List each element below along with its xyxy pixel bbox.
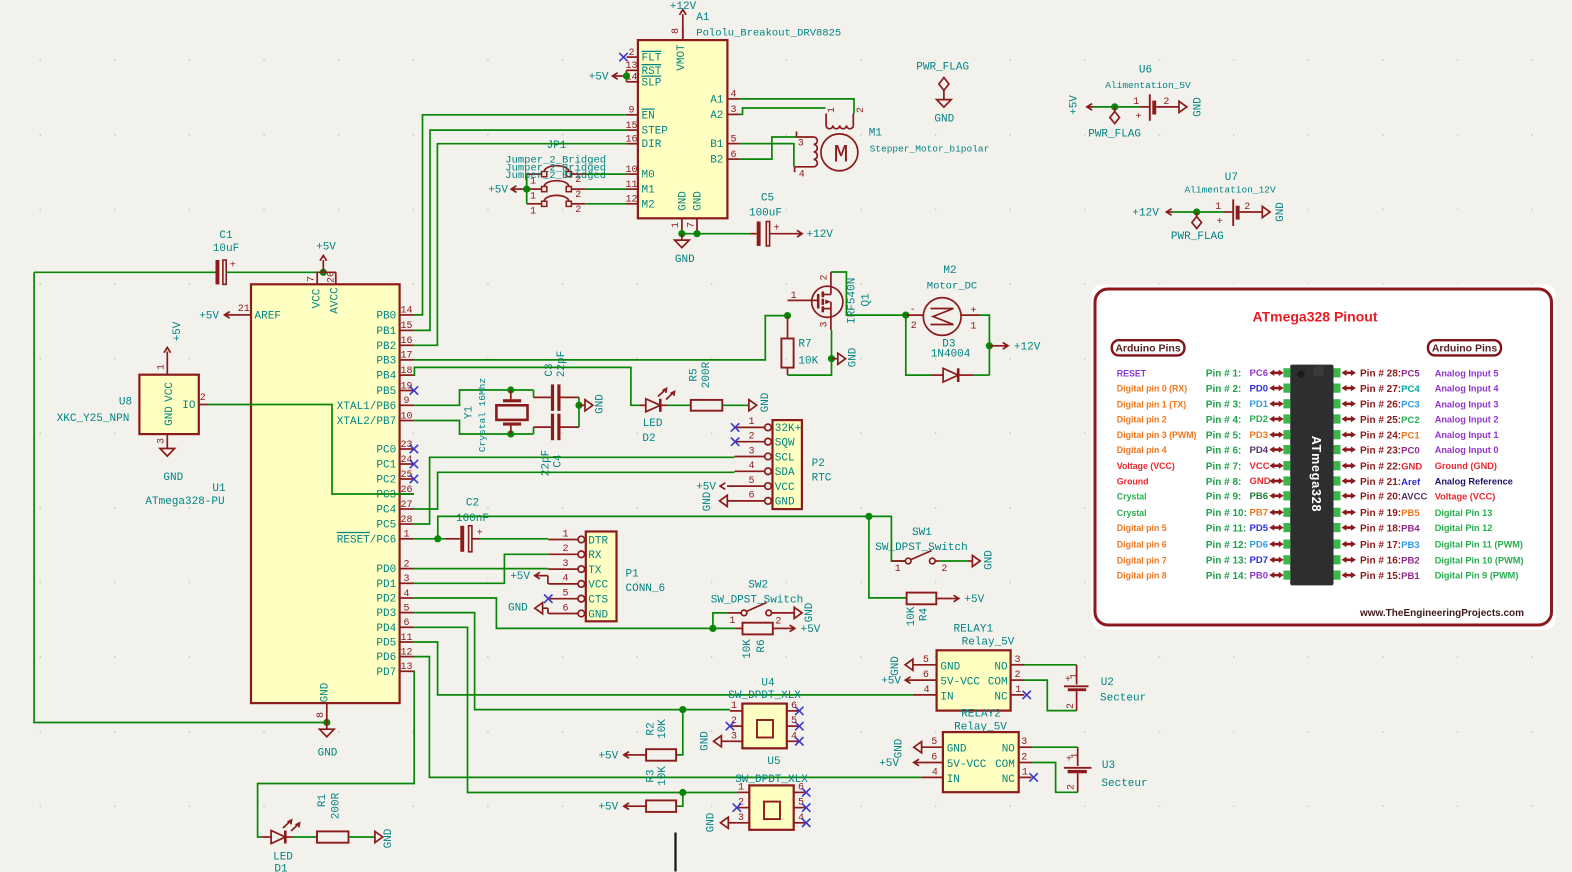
wire +12V to U7 battery (1172, 208, 1223, 215)
wire PD5 to RELAY1 IN (414, 642, 913, 695)
svg-text:PD7: PD7 (1250, 555, 1268, 566)
svg-text:Pin # 13:: Pin # 13: (1206, 556, 1247, 567)
ground symbol right of SW1 (968, 550, 996, 570)
svg-text:R3: R3 (645, 769, 657, 782)
svg-text:SW_DPST_Switch: SW_DPST_Switch (875, 542, 967, 554)
svg-text:100uF: 100uF (749, 207, 782, 219)
svg-text:LED: LED (643, 418, 663, 430)
switch SW2 SW_DPST_Switch (727, 603, 794, 628)
svg-text:PB6: PB6 (1250, 491, 1268, 502)
svg-text:32K+: 32K+ (775, 423, 801, 435)
connector P1 CONN_6 body (548, 529, 616, 621)
svg-text:PB1: PB1 (376, 326, 396, 338)
wire R5 to ground (722, 404, 749, 406)
IC U1 reference and value labels (145, 483, 226, 508)
wire PC4 to P2 SDA (414, 472, 735, 509)
svg-text:VCC: VCC (588, 580, 608, 592)
pinout right pin numbers and names (1360, 369, 1427, 582)
svg-text:www.TheEngineeringProjects.com: www.TheEngineeringProjects.com (1359, 608, 1524, 619)
svg-text:10K: 10K (742, 639, 754, 659)
svg-text:5V-VCC: 5V-VCC (940, 677, 980, 689)
IC U1 right pin stubs and numbers (400, 306, 414, 673)
svg-text:17: 17 (400, 351, 412, 362)
svg-text:Pin # 8:: Pin # 8: (1206, 477, 1242, 488)
svg-text:Pololu_Breakout_DRV8825: Pololu_Breakout_DRV8825 (696, 27, 841, 39)
svg-text:3: 3 (403, 574, 409, 585)
power symbol +5V at P1 VCC (510, 571, 548, 584)
wire RESET net to C2 (414, 535, 446, 542)
svg-text:13: 13 (400, 662, 412, 673)
diode D3 labels (931, 339, 971, 361)
svg-text:PB4: PB4 (376, 371, 396, 383)
svg-text:R5: R5 (689, 368, 701, 381)
svg-text:Analog Reference: Analog Reference (1435, 477, 1513, 487)
svg-text:+5V: +5V (881, 676, 901, 688)
power symbol +5V right of R6 (773, 624, 821, 636)
svg-text:R6: R6 (756, 639, 768, 652)
power symbol +5V at U6 (1069, 95, 1094, 115)
svg-text:4: 4 (932, 767, 938, 778)
svg-text:Analog Input 5: Analog Input 5 (1435, 368, 1499, 378)
svg-text:DIR: DIR (642, 139, 662, 151)
svg-text:XTAL1/PB6: XTAL1/PB6 (337, 401, 396, 413)
power symbol +5V left of R3 (598, 802, 637, 814)
pinout left descriptor column (1117, 368, 1197, 580)
svg-text:1: 1 (1022, 767, 1028, 778)
svg-text:Pin # 10:: Pin # 10: (1206, 508, 1247, 519)
svg-text:SW_DPST_Switch: SW_DPST_Switch (711, 595, 803, 607)
svg-text:+: + (970, 306, 976, 317)
svg-text:1: 1 (1070, 673, 1081, 679)
power symbol +5V right of R4 (936, 594, 984, 606)
svg-text:Pin # 22:GND: Pin # 22:GND (1360, 462, 1422, 473)
ground symbol right of U7 (1262, 202, 1287, 222)
svg-text:Stepper_Motor_bipolar: Stepper_Motor_bipolar (870, 144, 990, 155)
svg-text:10uF: 10uF (213, 243, 239, 255)
svg-text:4: 4 (562, 574, 568, 585)
svg-text:5: 5 (798, 798, 804, 809)
svg-text:22pF: 22pF (556, 351, 568, 377)
svg-text:Digital Pin 10 (PWM): Digital Pin 10 (PWM) (1435, 555, 1524, 565)
svg-text:Analog Input 0: Analog Input 0 (1435, 445, 1499, 455)
svg-text:Voltage (VCC): Voltage (VCC) (1117, 461, 1175, 471)
wire C2 to P1 DTR (472, 538, 548, 540)
svg-text:1: 1 (791, 291, 797, 302)
svg-text:2: 2 (775, 617, 781, 628)
svg-text:VCC: VCC (775, 482, 795, 494)
IC A1 left pin stubs with numbers (625, 48, 637, 206)
svg-text:200R: 200R (331, 792, 343, 819)
pinout footer url (1359, 608, 1524, 619)
svg-text:RX: RX (588, 550, 602, 562)
svg-text:Pin # 18:PB4: Pin # 18:PB4 (1360, 523, 1420, 534)
svg-text:2: 2 (575, 190, 581, 201)
svg-text:PC6: PC6 (1250, 368, 1268, 379)
svg-text:A1: A1 (710, 94, 724, 106)
svg-text:PD0: PD0 (376, 564, 396, 576)
svg-text:GND: GND (940, 661, 960, 673)
svg-text:RTC: RTC (812, 472, 832, 484)
svg-text:JP1: JP1 (547, 140, 567, 152)
svg-text:2: 2 (731, 716, 737, 727)
svg-text:3: 3 (798, 138, 804, 149)
svg-text:GND: GND (804, 602, 816, 622)
IC A1 pin 8 VMOT stub (671, 28, 683, 40)
wire M2 to jumper 3 (585, 203, 626, 205)
svg-text:GND: GND (702, 491, 714, 511)
svg-text:U3: U3 (1102, 760, 1115, 772)
svg-text:2: 2 (738, 798, 744, 809)
transistor Q1 IRF540N (788, 272, 843, 330)
svg-text:6: 6 (923, 670, 929, 681)
pinout double arrows (1269, 370, 1356, 579)
svg-text:GND: GND (678, 191, 690, 211)
svg-text:1: 1 (156, 364, 167, 370)
svg-text:ATmega328: ATmega328 (1309, 436, 1323, 512)
svg-text:R4: R4 (919, 608, 931, 622)
power symbol +5V at P2 VCC (696, 482, 725, 494)
svg-text:Relay_5V: Relay_5V (954, 722, 1007, 734)
wire PD2 to SW2 and R6 (414, 598, 736, 632)
wire RESET net to SW1 and R4 (438, 513, 907, 598)
crystal Y1 labels (464, 378, 489, 452)
svg-text:GND: GND (847, 347, 859, 367)
svg-text:Pin # 2:: Pin # 2: (1206, 384, 1242, 395)
svg-text:Digital pin 5: Digital pin 5 (1117, 523, 1167, 533)
svg-text:PD3: PD3 (1250, 430, 1268, 441)
svg-text:A1: A1 (696, 12, 710, 24)
svg-text:Digital Pin 9 (PWM): Digital Pin 9 (PWM) (1435, 571, 1519, 581)
switch U4 labels (728, 678, 801, 703)
wire SW1 to ground (940, 560, 968, 562)
svg-text:5: 5 (730, 134, 736, 145)
wire PD6 to RELAY2 IN (414, 657, 922, 778)
svg-text:10K: 10K (657, 766, 669, 786)
connector P2 labels (812, 458, 832, 484)
svg-text:GND: GND (163, 472, 183, 484)
svg-text:SDA: SDA (775, 467, 795, 479)
svg-text:100nF: 100nF (456, 513, 489, 525)
svg-text:16: 16 (625, 135, 637, 146)
svg-text:2: 2 (941, 564, 947, 575)
svg-text:5V-VCC: 5V-VCC (947, 759, 987, 771)
svg-text:GND: GND (894, 738, 906, 758)
svg-text:PWR_FLAG: PWR_FLAG (916, 61, 969, 73)
svg-text:Pin # 21:Aref: Pin # 21:Aref (1360, 477, 1421, 488)
wire LED D2 to R5 (667, 404, 691, 406)
svg-text:5: 5 (923, 655, 929, 666)
svg-text:4: 4 (924, 685, 930, 696)
svg-text:Arduino Pins: Arduino Pins (1432, 343, 1497, 355)
crystal Y1 16Mhz (496, 390, 527, 434)
svg-text:PWR_FLAG: PWR_FLAG (1171, 231, 1224, 243)
wire EN to PB0 (414, 115, 627, 315)
svg-text:4: 4 (798, 813, 804, 824)
svg-text:1: 1 (562, 529, 568, 540)
svg-text:+: + (1217, 217, 1223, 228)
no-connect X on U4 pins (726, 707, 804, 746)
svg-text:6: 6 (403, 618, 409, 629)
wire B2 to stepper coil B terminal 3 (739, 137, 796, 159)
wire ground rail to C1 (34, 271, 215, 273)
svg-text:Alimentation_12V: Alimentation_12V (1184, 185, 1276, 196)
svg-text:Pin # 26:PC3: Pin # 26:PC3 (1360, 400, 1420, 411)
svg-text:SQW: SQW (775, 438, 795, 450)
svg-text:RELAY1: RELAY1 (953, 623, 993, 635)
svg-text:RESET: RESET (1117, 368, 1147, 378)
svg-text:PD2: PD2 (376, 594, 396, 606)
svg-text:XKC_Y25_NPN: XKC_Y25_NPN (57, 413, 130, 425)
wire A1 to stepper coil A (739, 99, 854, 114)
ground symbol right of C3 C4 (579, 394, 607, 414)
svg-text:ATmega328 Pinout: ATmega328 Pinout (1253, 309, 1378, 325)
LED D1 (262, 820, 300, 844)
svg-text:12: 12 (625, 195, 637, 206)
svg-text:11: 11 (400, 633, 412, 644)
power symbol +5V at RELAY1 pin 6 (881, 676, 913, 688)
svg-text:IRF540N: IRF540N (847, 278, 859, 324)
svg-text:Crystal 16Mhz: Crystal 16Mhz (477, 378, 488, 452)
wire PC5 to P2 SCL (414, 457, 735, 524)
pinout badge Arduino Pins left (1112, 340, 1185, 355)
svg-text:PD4: PD4 (376, 623, 396, 635)
svg-text:10K: 10K (798, 356, 818, 368)
svg-text:PD5: PD5 (376, 638, 396, 650)
ground symbol right of U6 (1179, 97, 1205, 117)
wire DIR to PB2 (414, 144, 627, 346)
svg-text:3: 3 (738, 813, 744, 824)
svg-text:C1: C1 (219, 230, 233, 242)
svg-text:PD1: PD1 (376, 579, 396, 591)
svg-text:1N4004: 1N4004 (931, 349, 971, 361)
svg-text:RELAY2: RELAY2 (961, 709, 1001, 721)
wire D3 cathode to M2 plus and +12V (974, 315, 993, 375)
stray black line at bottom (674, 833, 676, 872)
svg-text:27: 27 (400, 500, 412, 511)
no-connect X on RELAY2 NC (1029, 773, 1037, 781)
svg-text:C2: C2 (466, 497, 479, 509)
svg-text:7: 7 (307, 276, 318, 282)
svg-text:Pin # 12:: Pin # 12: (1206, 540, 1247, 551)
pinout left chip pin names (1250, 368, 1271, 581)
svg-text:1: 1 (895, 564, 901, 575)
svg-text:ATmega328-PU: ATmega328-PU (145, 496, 224, 508)
svg-text:CONN_6: CONN_6 (626, 583, 666, 595)
svg-text:SW2: SW2 (748, 580, 768, 592)
ground symbol at P2 GND (702, 491, 727, 511)
pinout panel background (1092, 285, 1556, 630)
svg-text:3: 3 (730, 105, 736, 116)
svg-text:1: 1 (671, 222, 682, 228)
svg-text:U2: U2 (1101, 677, 1114, 689)
svg-text:A2: A2 (710, 110, 723, 122)
sensor U8 labels (57, 396, 132, 425)
svg-text:VCC: VCC (1250, 461, 1270, 472)
svg-text:CTS: CTS (588, 595, 608, 607)
svg-text:2: 2 (1066, 703, 1077, 709)
svg-text:+12V: +12V (670, 1, 697, 13)
svg-text:SW_DPDT_XLX: SW_DPDT_XLX (728, 690, 801, 702)
svg-text:1: 1 (403, 530, 409, 541)
svg-text:GND: GND (984, 550, 996, 570)
svg-text:PD3: PD3 (376, 608, 396, 620)
svg-text:10K: 10K (906, 606, 918, 626)
resistor R6 10K (736, 623, 773, 659)
svg-text:PC2: PC2 (376, 475, 396, 487)
svg-text:4: 4 (730, 90, 736, 101)
svg-text:Analog Input 1: Analog Input 1 (1435, 430, 1499, 440)
svg-text:PD1: PD1 (1250, 399, 1269, 410)
ground symbol below DRV8825 (675, 234, 695, 266)
wire jumper common rail (523, 174, 530, 204)
svg-text:+5V: +5V (1069, 95, 1081, 115)
capacitor C2 100nF (446, 497, 489, 552)
svg-text:3: 3 (820, 321, 831, 327)
svg-text:Pin # 3:: Pin # 3: (1206, 400, 1242, 411)
svg-text:NC: NC (994, 691, 1008, 703)
ground symbol right of SW2 (794, 602, 816, 622)
svg-text:6: 6 (730, 150, 736, 161)
svg-text:15: 15 (625, 121, 637, 132)
wire R1 to ground (349, 836, 375, 838)
svg-text:4: 4 (791, 731, 797, 742)
IC U1 ATmega328-PU body (251, 284, 400, 703)
svg-text:SLP: SLP (642, 77, 662, 89)
svg-text:GND: GND (775, 497, 795, 509)
svg-text:+: + (230, 261, 236, 272)
ground symbol at RELAY2 pin 5 (894, 738, 922, 758)
svg-text:+5V: +5V (172, 321, 184, 341)
svg-text:1: 1 (729, 616, 735, 627)
wire PB3 to Q1 gate node (414, 312, 791, 360)
IC A1 right pin stubs with numbers (727, 90, 739, 161)
power symbol +5V above U1 VCC (316, 242, 336, 273)
svg-text:FLT: FLT (642, 53, 662, 65)
svg-text:B2: B2 (710, 155, 723, 167)
svg-text:Analog Input 2: Analog Input 2 (1435, 415, 1499, 425)
svg-text:PD5: PD5 (1250, 523, 1269, 534)
capacitor C4 22pF (534, 414, 580, 441)
svg-text:8: 8 (671, 28, 682, 34)
svg-text:COM: COM (988, 677, 1008, 689)
svg-text:Pin # 17:PB3: Pin # 17:PB3 (1360, 540, 1420, 551)
svg-text:PWR_FLAG: PWR_FLAG (1088, 128, 1141, 140)
svg-text:PD6: PD6 (1250, 539, 1268, 550)
svg-text:Q1: Q1 (861, 293, 873, 307)
svg-text:+5V: +5V (316, 242, 336, 254)
svg-text:PB2: PB2 (376, 341, 396, 353)
svg-text:2: 2 (856, 107, 867, 113)
motor M1 Stepper_Motor_bipolar (795, 107, 867, 180)
svg-text:Ground: Ground (1117, 477, 1149, 487)
svg-text:Digital pin 1 (TX): Digital pin 1 (TX) (1117, 399, 1186, 409)
svg-text:VCC: VCC (164, 382, 176, 402)
power symbol +5V at jumpers (488, 185, 527, 197)
svg-text:Digital pin 7: Digital pin 7 (1117, 555, 1167, 565)
svg-text:GND: GND (595, 394, 607, 414)
svg-text:GND: GND (706, 812, 718, 832)
svg-text:Digital pin 4: Digital pin 4 (1117, 445, 1167, 455)
svg-text:1: 1 (1215, 202, 1221, 213)
svg-text:2: 2 (200, 393, 206, 404)
svg-text:B1: B1 (710, 139, 724, 151)
svg-text:Pin # 5:: Pin # 5: (1206, 431, 1242, 442)
no-connect X on P2 pins 1 2 (731, 423, 739, 446)
svg-text:6: 6 (791, 701, 797, 712)
svg-text:21: 21 (238, 304, 250, 315)
svg-text:XTAL2/PB7: XTAL2/PB7 (337, 416, 396, 428)
svg-text:2: 2 (1067, 784, 1078, 790)
svg-text:5: 5 (562, 589, 568, 600)
IC U1 right pin names (337, 310, 397, 678)
IC U1 bottom pin name GND (320, 682, 332, 702)
motor M2 Motor_DC (906, 298, 980, 336)
wire STEP to PB1 (414, 130, 627, 330)
svg-text:2: 2 (628, 48, 634, 59)
no-connect X on FLT pin 2 (619, 53, 627, 61)
battery U7 Alimentation_12V (1215, 199, 1262, 228)
LED D2 (640, 389, 675, 412)
svg-text:+5V: +5V (488, 185, 508, 197)
svg-text:6: 6 (931, 753, 937, 764)
svg-text:3: 3 (1021, 737, 1027, 748)
svg-text:9: 9 (628, 106, 634, 117)
no-connect X on U5 pins (733, 788, 811, 827)
svg-text:GND: GND (934, 114, 954, 126)
LED D1 labels (273, 852, 293, 872)
svg-text:GND: GND (508, 603, 528, 615)
ground symbol at U4 pin 3 (700, 731, 730, 751)
capacitor C5 100uF (749, 193, 782, 246)
svg-text:PD6: PD6 (376, 652, 396, 664)
svg-text:1: 1 (731, 701, 737, 712)
svg-text:M2: M2 (943, 265, 956, 277)
IC U1 AREF pin 21 (237, 304, 281, 322)
svg-text:5: 5 (931, 737, 937, 748)
svg-text:Arduino Pins: Arduino Pins (1115, 343, 1180, 355)
svg-text:R2: R2 (645, 722, 657, 735)
svg-text:-: - (910, 305, 916, 316)
svg-text:9: 9 (403, 396, 409, 407)
pinout panel title ATmega328 Pinout (1253, 309, 1378, 325)
svg-text:1: 1 (1071, 752, 1082, 758)
wire RELAY1 COM to U2 (1024, 680, 1076, 711)
wire RELAY2 COM to U3 (1032, 763, 1078, 793)
svg-text:+5V: +5V (598, 802, 618, 814)
svg-text:GND: GND (320, 682, 332, 702)
svg-text:PB5: PB5 (376, 386, 396, 398)
svg-text:C3: C3 (544, 363, 556, 376)
svg-text:TX: TX (588, 565, 602, 577)
svg-text:Pin # 23:PC0: Pin # 23:PC0 (1360, 445, 1420, 456)
power flag PWR_FLAG at U7 (1171, 212, 1224, 243)
capacitor C1 10uF (213, 230, 239, 285)
wire R7 to Q1 source ground node (788, 330, 836, 375)
svg-text:Digital Pin 12: Digital Pin 12 (1435, 523, 1493, 533)
svg-text:18: 18 (400, 366, 412, 377)
svg-text:C4: C4 (553, 454, 565, 468)
svg-text:4: 4 (799, 169, 805, 180)
svg-text:DTR: DTR (588, 535, 608, 547)
resistor R4 10K (906, 593, 936, 627)
wire PD3 to U4 and R2 (414, 613, 730, 755)
power symbol +5V left of R2 (598, 750, 637, 762)
ground symbol at RELAY1 pin 5 (890, 656, 913, 676)
svg-text:AREF: AREF (255, 310, 281, 322)
svg-text:1: 1 (1133, 97, 1139, 108)
battery U2 labels (1100, 677, 1146, 705)
svg-text:5: 5 (403, 603, 409, 614)
